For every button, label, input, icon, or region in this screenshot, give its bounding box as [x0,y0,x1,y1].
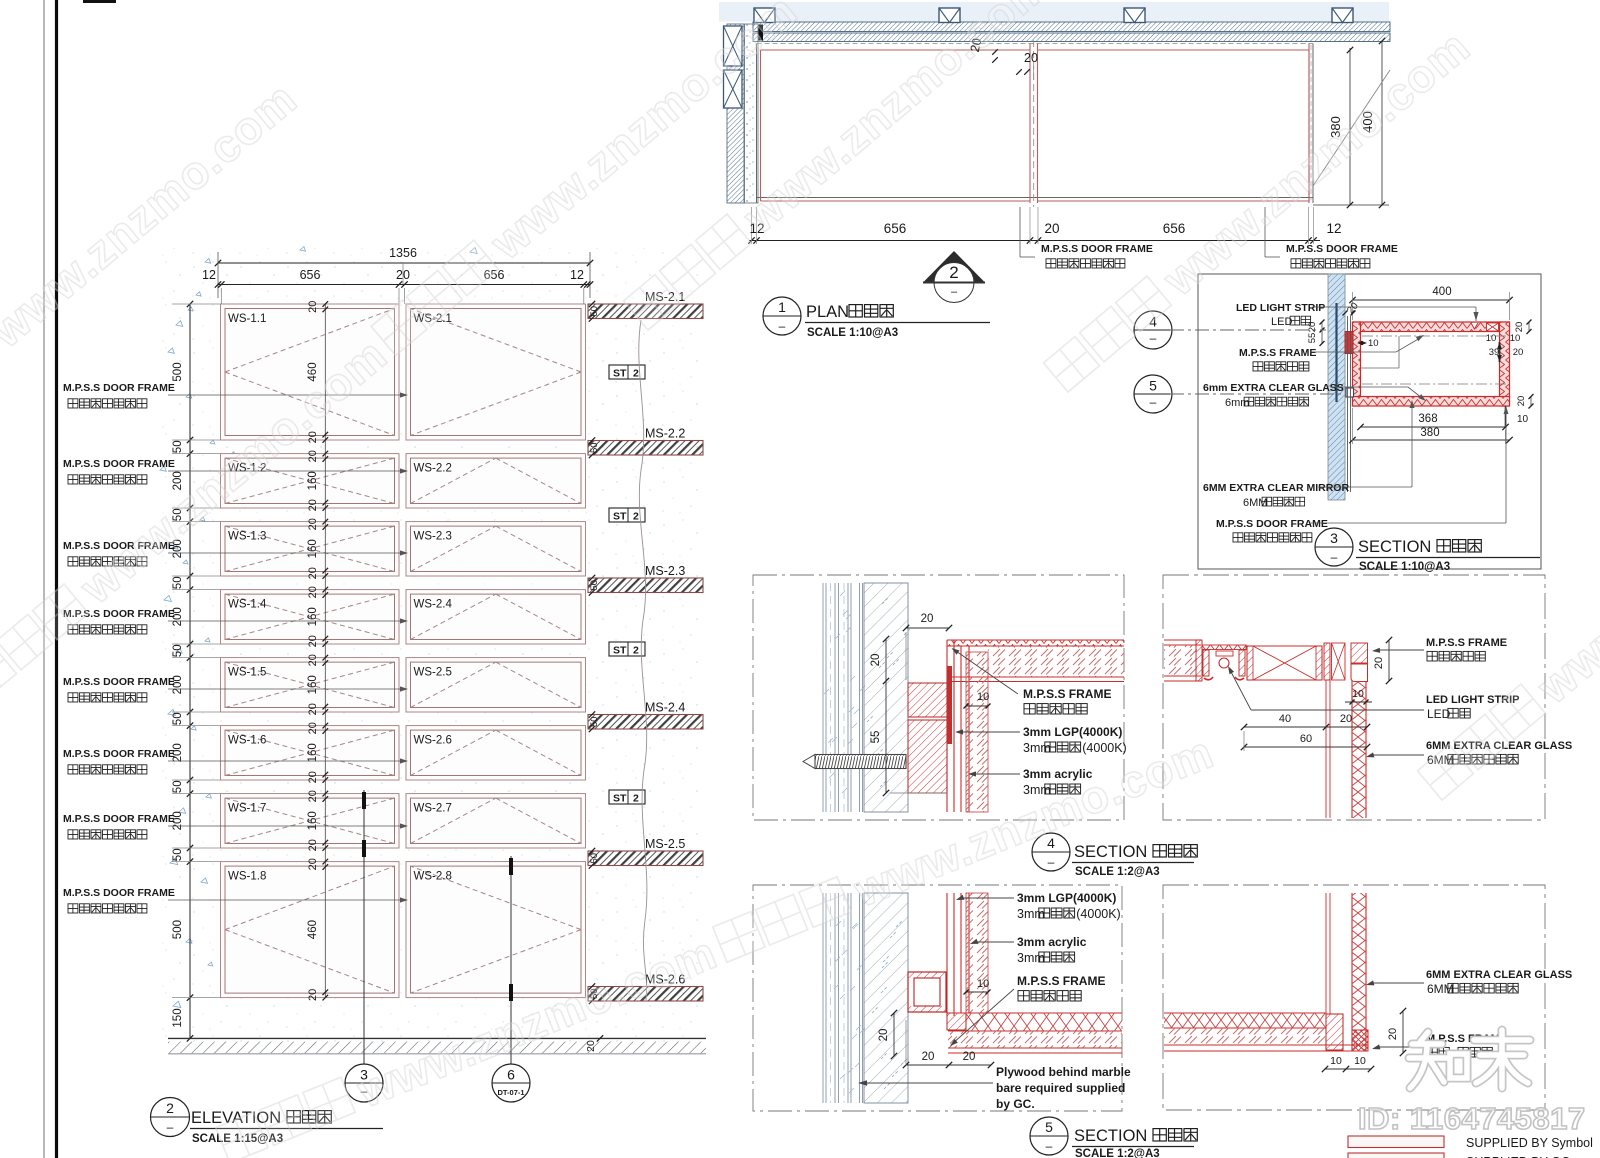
section 4: vertical acrylic/LGP panels [946,640,948,812]
panel WS-2.5 [406,658,586,712]
svg-text:SUPPLIED BY Symbol: SUPPLIED BY Symbol [1466,1136,1593,1150]
svg-text:M.P.S.S DOOR FRAME: M.P.S.S DOOR FRAME [1286,243,1398,255]
plan: corner block [759,25,764,41]
plaster triangles texture [160,247,477,1008]
svg-text:12: 12 [570,268,584,282]
svg-text:M.P.S.S FRAME: M.P.S.S FRAME [1426,637,1507,649]
svg-text:ID: 1164745817: ID: 1164745817 [1358,1101,1586,1136]
plan: cabinet opening outline [756,44,758,204]
svg-text:WS-1.5: WS-1.5 [228,667,266,679]
svg-text:M.P.S.S DOOR FRAME: M.P.S.S DOOR FRAME [63,813,175,825]
ST 2 reference boxes [609,365,645,379]
svg-text:50: 50 [589,442,600,453]
panel WS-1.7 [221,794,400,848]
section 3 border box [1198,274,1541,569]
watermark big ZhiMo characters [1409,1032,1467,1088]
svg-text:20: 20 [878,1029,890,1042]
plan: center mullion [1029,44,1031,204]
rt: LED bulb circle [1219,658,1229,668]
svg-text:10: 10 [977,691,989,703]
wavy break line [639,320,647,1000]
ground line and hatch [168,1037,706,1039]
panel WS-2.7 [406,794,586,848]
legend: second swatch (cut) [1348,1153,1444,1158]
svg-text:WS-2.5: WS-2.5 [414,667,452,679]
section 3: cabinet top member [1353,322,1510,332]
panel WS-1.3 [221,522,400,576]
svg-text:6mm: 6mm [1225,397,1249,409]
svg-text:M.P.S.S DOOR FRAME: M.P.S.S DOOR FRAME [63,382,175,394]
svg-text:6MM EXTRA CLEAR MIRROR: 6MM EXTRA CLEAR MIRROR [1203,482,1349,494]
section 3: wall cleat solid red [1345,332,1353,354]
plan: stud markers above wall [754,8,775,23]
plan: left return wall [727,24,744,203]
svg-text:WS-2.7: WS-2.7 [414,803,452,815]
svg-text:20: 20 [307,450,319,462]
svg-text:WS-1.6: WS-1.6 [228,735,266,747]
panel WS-2.2 [406,454,586,508]
extension lines top [220,288,222,304]
svg-text:20: 20 [307,703,319,715]
panel WS-1.6 [221,726,400,780]
svg-text:DT-07-1: DT-07-1 [497,1088,524,1097]
rt: divider strip [1196,640,1202,681]
panel WS-2.3 [406,522,586,576]
title: 5 SECTION [1030,1117,1068,1155]
svg-text:MS-2.2: MS-2.2 [645,427,685,441]
svg-text:160: 160 [307,743,319,762]
svg-text:ST: ST [613,511,627,523]
finish bar MS-2.5 [588,851,703,866]
plan: mirror face red lines [761,49,1031,51]
plan: left wall stud markers [724,26,743,66]
svg-text:150: 150 [172,1008,184,1027]
watermark diagonal text [0,0,807,708]
svg-text:–: – [1150,331,1157,345]
svg-text:WS-2.4: WS-2.4 [414,599,453,611]
svg-text:SCALE 1:2@A3: SCALE 1:2@A3 [1075,1148,1160,1158]
section 4 dashed border box [753,575,1124,820]
svg-text:40: 40 [1279,713,1291,725]
svg-text:2: 2 [633,645,639,657]
svg-text:M.P.S.S DOOR FRAME: M.P.S.S DOOR FRAME [63,458,175,470]
svg-text:–: – [951,286,958,298]
svg-text:50: 50 [589,853,600,864]
svg-text:LED: LED [1271,316,1292,328]
svg-text:MS-2.3: MS-2.3 [645,564,685,578]
svg-text:20: 20 [870,654,882,667]
section 5 dashed border box [753,885,1122,1111]
plan: dim 400 [1381,41,1383,205]
svg-text:50: 50 [589,716,600,727]
section 4: dim 55 vertical [885,681,887,793]
svg-text:SECTION: SECTION [1074,843,1147,861]
section 5: dims [966,991,988,993]
svg-text:6: 6 [507,1067,515,1083]
svg-text:656: 656 [884,221,907,236]
title: 3 SECTION [1315,528,1353,566]
svg-text:LED LIGHT STRIP: LED LIGHT STRIP [1236,302,1325,314]
svg-text:400: 400 [1432,286,1451,298]
svg-text:50: 50 [172,848,184,861]
section 4: dim 10 [966,705,988,707]
panel WS-1.5 [221,658,400,712]
svg-text:SCALE 1:2@A3: SCALE 1:2@A3 [1075,866,1160,878]
svg-text:160: 160 [307,811,319,830]
panel WS-1.1 [221,304,400,440]
svg-text:3mm: 3mm [1017,951,1045,965]
svg-text:WS-1.1: WS-1.1 [228,313,266,325]
svg-text:20: 20 [1516,396,1527,407]
svg-text:10: 10 [977,978,989,990]
right bottom detail dashed box [1163,885,1545,1110]
callout circle 4 [1134,311,1172,349]
section 3: inner detail box [1361,367,1400,369]
svg-text:2: 2 [633,368,639,380]
finish bar MS-2.1 [588,304,703,319]
svg-text:10: 10 [1517,414,1529,425]
svg-text:12: 12 [202,268,216,282]
svg-text:20: 20 [922,1051,935,1063]
svg-text:WS-2.3: WS-2.3 [414,531,452,543]
rt: vertical glass with zigzag [1351,681,1353,818]
elevation stone speckle texture [158,248,708,1048]
rt: mirror panel left segment [1164,639,1201,641]
svg-text:M.P.S.S FRAME: M.P.S.S FRAME [1239,347,1316,359]
svg-text:2: 2 [949,263,958,282]
rb: J profile [1352,1030,1368,1051]
svg-text:20: 20 [1307,322,1318,333]
svg-text:ST: ST [613,793,627,805]
svg-text:50: 50 [172,712,184,725]
watermark diagonal text [1415,428,1600,808]
callout circle 5 [1134,375,1172,413]
svg-text:6mm EXTRA CLEAR GLASS: 6mm EXTRA CLEAR GLASS [1203,382,1344,394]
svg-text:10: 10 [1330,1055,1342,1067]
section 3: LED notch in top member [1471,323,1478,329]
svg-text:ST: ST [613,368,627,380]
svg-text:20: 20 [307,989,319,1001]
svg-text:3mm acrylic: 3mm acrylic [1017,935,1087,949]
panel WS-2.1 [406,304,586,440]
svg-text:LED: LED [1427,707,1451,721]
plan: diagonal break line [1313,70,1390,186]
elevation left dim chain [189,304,191,1038]
section 4: mirror panel horizontal top right [947,639,1124,641]
watermark diagonal text [1041,20,1479,400]
svg-text:50: 50 [589,306,600,317]
svg-text:20: 20 [1373,657,1385,669]
svg-text:500: 500 [172,920,184,939]
section 3: dim 368 [1361,426,1506,428]
svg-text:20: 20 [585,1040,597,1052]
svg-text:500: 500 [172,362,184,381]
svg-text:20: 20 [1024,51,1038,65]
svg-text:Plywood behind marble: Plywood behind marble [996,1065,1131,1079]
svg-text:20: 20 [307,790,319,802]
watermark diagonal text [0,72,306,452]
svg-text:WS-1.8: WS-1.8 [228,871,266,883]
svg-text:M.P.S.S FRAME: M.P.S.S FRAME [1017,974,1105,988]
svg-text:656: 656 [1163,221,1186,236]
rb: bottom mirror band [1164,1012,1326,1014]
svg-text:160: 160 [307,539,319,558]
section 5: layered glass finish [822,893,824,1103]
section 3: bottom small catch [1346,388,1354,397]
svg-text:2: 2 [166,1100,174,1116]
svg-text:1: 1 [778,299,786,315]
svg-text:20: 20 [1340,713,1352,725]
svg-text:50: 50 [172,780,184,793]
title: 2 ELEVATION [151,1098,190,1137]
panel WS-1.2 [221,454,400,508]
watermark diagonal text [214,725,1220,1158]
svg-text:M.P.S.S DOOR FRAME: M.P.S.S DOOR FRAME [63,676,175,688]
svg-text:50: 50 [172,644,184,657]
section 5: vertical panels [946,893,948,1016]
svg-text:SCALE 1:10@A3: SCALE 1:10@A3 [1359,561,1450,573]
plan: section marker triangle 2 [923,251,985,283]
section cut line 3 vertical [363,790,365,1064]
svg-text:M.P.S.S FRAME: M.P.S.S FRAME [1023,687,1111,701]
svg-text:MS-2.4: MS-2.4 [645,701,685,715]
section 4: 10mm frame panel hatched [966,652,988,812]
svg-text:PLAN: PLAN [806,303,849,321]
panel WS-1.8 [221,862,400,998]
svg-text:20: 20 [1513,347,1524,358]
svg-text:3mm: 3mm [1023,741,1051,755]
elevation top dim chain 12/656/20/656/12 [218,284,590,286]
legend: supplied by symbol swatch [1348,1136,1444,1148]
svg-text:55: 55 [870,731,882,744]
svg-text:20: 20 [307,635,319,647]
svg-text:20: 20 [307,518,319,530]
svg-text:5: 5 [1045,1119,1053,1135]
section 3: cabinet right member [1500,322,1510,406]
section 3: dim 380 [1353,439,1510,441]
finish bar MS-2.6 [588,987,703,1002]
svg-text:M.P.S.S DOOR FRAME: M.P.S.S DOOR FRAME [63,887,175,899]
right top detail dashed box [1163,575,1545,820]
svg-text:2: 2 [633,511,639,523]
left extension lines [172,303,220,305]
svg-text:–: – [1048,855,1055,869]
svg-text:160: 160 [307,607,319,626]
rt: narrow strips [1324,643,1330,680]
svg-text:12: 12 [1326,221,1341,236]
section 3: left vert dims 20/55 [1321,322,1323,344]
svg-text:–: – [779,319,786,333]
svg-text:20: 20 [307,586,319,598]
elevation internal vertical dim chain x=325 [324,304,326,998]
rt: LED cove channel [1202,645,1246,650]
rb: corner hatched block [1326,1014,1343,1050]
svg-text:160: 160 [307,471,319,490]
svg-text:WS-1.7: WS-1.7 [228,803,266,815]
svg-text:20: 20 [1387,1028,1399,1040]
svg-text:656: 656 [300,268,321,282]
svg-text:MS-2.5: MS-2.5 [645,837,685,851]
svg-text:50: 50 [589,580,600,591]
svg-text:50: 50 [172,576,184,589]
svg-text:3: 3 [1330,530,1338,546]
svg-text:3mm: 3mm [1017,907,1045,921]
svg-text:10: 10 [1510,333,1521,344]
svg-text:(4000K): (4000K) [1076,907,1120,921]
svg-text:368: 368 [1418,413,1437,425]
svg-text:WS-2.6: WS-2.6 [414,735,452,747]
svg-text:2: 2 [633,793,639,805]
panel WS-1.4 [221,590,400,644]
plan: light blue backdrop above wall [719,2,1389,22]
section 3: door frame vertical edge lines [1347,316,1349,492]
section 3: right edge dims 20/20/10 [1528,322,1530,332]
section 3: top-right X blocking [1487,323,1499,331]
svg-text:460: 460 [307,920,319,939]
svg-text:20: 20 [307,654,319,666]
section 5: corner angle piece [947,1013,966,1030]
svg-text:bare required supplied: bare required supplied [996,1081,1125,1095]
watermark diagonal text [621,0,1059,338]
svg-text:10: 10 [1368,338,1379,349]
svg-text:M.P.S.S DOOR FRAME: M.P.S.S DOOR FRAME [1041,243,1153,255]
rb: vertical glass [1351,893,1353,1051]
svg-text:20: 20 [307,567,319,579]
svg-text:by GC.: by GC. [996,1097,1035,1111]
svg-text:WS-2.2: WS-2.2 [414,463,452,475]
section 4: screw fixing [803,755,815,769]
section 3: cabinet left member [1353,322,1361,406]
plan: right edge detail [1308,44,1310,204]
svg-text:–: – [1150,395,1157,409]
finish bar MS-2.4 [588,715,703,730]
section 5: wall plaster hatch [864,893,908,1103]
svg-text:20: 20 [307,839,319,851]
section 4: dim 20 top [906,627,949,629]
svg-text:50: 50 [172,440,184,453]
plan: leader labels M.P.S.S DOOR FRAME [1019,207,1021,257]
svg-text:WS-1.4: WS-1.4 [228,599,267,611]
svg-text:10: 10 [1352,688,1364,700]
svg-text:6MM EXTRA CLEAR GLASS: 6MM EXTRA CLEAR GLASS [1426,969,1572,981]
rt: dims [1388,640,1390,681]
svg-text:ST: ST [613,645,627,657]
plan: bottom dim chain [749,240,1320,242]
svg-text:1356: 1356 [389,246,417,260]
svg-text:380: 380 [1420,427,1439,439]
section 4: dim 20 vertical [885,639,887,681]
callout circle 6 DT-07-1 [492,1064,530,1102]
finish bar MS-2.2 [588,441,703,456]
callout circle 3 [345,1064,383,1102]
svg-text:M.P.S.S DOOR FRAME: M.P.S.S DOOR FRAME [63,748,175,760]
section 3: blue wall strip [1328,274,1345,500]
svg-text:6MM: 6MM [1243,497,1267,509]
svg-text:SECTION: SECTION [1074,1127,1147,1145]
svg-text:10: 10 [1354,1055,1366,1067]
rt: corner frame piece [1351,643,1368,663]
svg-text:(4000K): (4000K) [1082,741,1126,755]
section 5: bottom mirror band [948,1012,1122,1014]
sheet inner border thin line [43,0,45,1158]
svg-text:5: 5 [1149,378,1157,394]
svg-text:3mm LGP(4000K): 3mm LGP(4000K) [1017,891,1116,905]
svg-text:20: 20 [307,301,319,313]
section 3: cabinet bottom member [1353,397,1510,407]
title: 1 PLAN [763,297,801,335]
svg-text:–: – [1046,1139,1053,1153]
svg-text:55: 55 [1307,333,1318,344]
section 4: wall plaster hatch [864,583,908,812]
svg-text:20: 20 [1044,221,1059,236]
section 5: square tube [908,972,946,1012]
rt: back panel lines [1325,680,1327,818]
panel WS-2.4 [406,590,586,644]
svg-text:20: 20 [921,613,934,625]
panel WS-2.6 [406,726,586,780]
rt: wood blocking with X [1247,646,1322,680]
section 3: inner cavity lines [1361,332,1500,397]
svg-text:SECTION: SECTION [1358,538,1431,556]
sheet border thick line [55,0,58,1158]
svg-text:20: 20 [1514,322,1525,333]
plan: dim 380 [1349,48,1351,205]
svg-text:20: 20 [307,499,319,511]
section cut line 6 vertical [510,856,512,1064]
title: 4 SECTION [1032,833,1070,871]
panel WS-2.8 [406,862,586,998]
svg-text:20: 20 [307,858,319,870]
svg-text:20: 20 [307,722,319,734]
section 4: red mounting blocks [908,683,947,717]
svg-text:–: – [1331,550,1338,564]
svg-text:20: 20 [307,771,319,783]
svg-text:10: 10 [1486,333,1497,344]
svg-text:SCALE 1:10@A3: SCALE 1:10@A3 [807,327,898,339]
svg-text:WS-1.3: WS-1.3 [228,531,266,543]
svg-text:60: 60 [1300,733,1312,745]
elevation top dim chain 1356 [218,262,590,264]
rb: dims [1402,1011,1404,1053]
section 4: layered glass finish on wall [822,583,824,812]
rb: back panel lines [1325,893,1327,1014]
section 3: dim 400 [1353,299,1510,301]
plan: top wall double hatch band [753,22,1390,32]
svg-text:20: 20 [963,1051,976,1063]
svg-text:160: 160 [307,675,319,694]
svg-text:M.P.S.S DOOR FRAME: M.P.S.S DOOR FRAME [1216,518,1328,530]
top edge tick [83,0,116,3]
svg-text:6MM: 6MM [1427,982,1454,996]
svg-text:3mm LGP(4000K): 3mm LGP(4000K) [1023,725,1122,739]
finish bar MS-2.3 [588,578,703,593]
svg-text:WS-2.8: WS-2.8 [414,871,452,883]
svg-text:–: – [167,1120,174,1134]
